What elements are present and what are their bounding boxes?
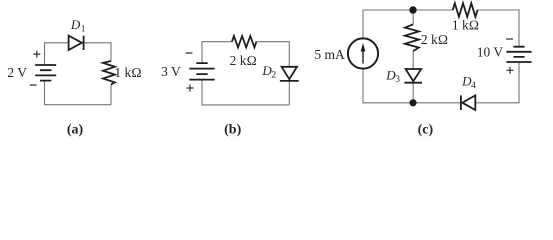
- svg-text:3: 3: [395, 75, 400, 85]
- svg-text:1 kΩ: 1 kΩ: [452, 17, 479, 32]
- svg-text:(a): (a): [67, 122, 84, 137]
- svg-text:(b): (b): [224, 122, 241, 137]
- svg-text:(c): (c): [418, 122, 434, 137]
- svg-text:D: D: [70, 17, 81, 32]
- svg-text:2 kΩ: 2 kΩ: [230, 53, 257, 68]
- svg-text:2: 2: [271, 71, 276, 81]
- svg-text:2 kΩ: 2 kΩ: [421, 32, 448, 47]
- svg-text:3 V: 3 V: [161, 64, 181, 79]
- svg-text:4: 4: [471, 81, 476, 91]
- svg-text:5 mA: 5 mA: [314, 47, 345, 62]
- svg-text:2 V: 2 V: [7, 65, 27, 80]
- svg-text:1: 1: [81, 24, 86, 34]
- svg-text:10 V: 10 V: [477, 45, 504, 60]
- svg-text:1 kΩ: 1 kΩ: [114, 65, 141, 80]
